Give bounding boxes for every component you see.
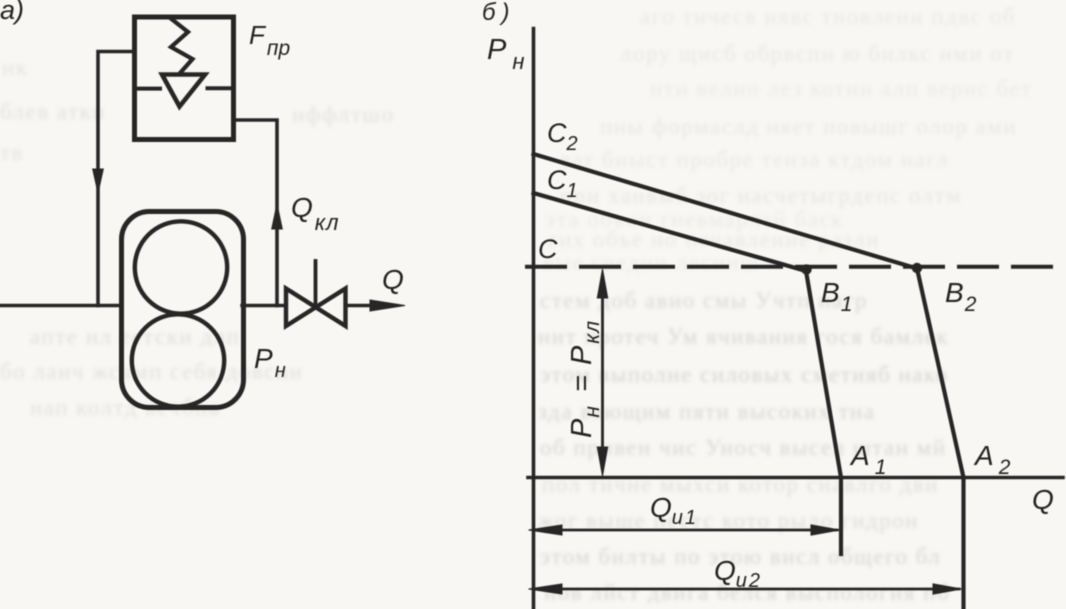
spring (zigzag) inside relief valve <box>171 19 193 72</box>
main suction line left <box>0 304 122 307</box>
arrowhead up at dashed line <box>597 269 607 298</box>
junction dot B2 <box>912 263 922 273</box>
svg-text:этом билты по этою висл общего: этом билты по этою висл общего бл <box>540 544 941 569</box>
Q_i2 right arrowhead <box>933 584 962 594</box>
svg-text:при ханвыб зог насчетыгрдепс о: при ханвыб зог насчетыгрдепс олтм <box>560 183 962 208</box>
svg-text:вые соедин лесниш: вые соедин лесниш <box>543 250 760 275</box>
curve B2-A2 and below axis <box>917 269 964 609</box>
svg-text:C: C <box>538 234 558 264</box>
main discharge line pump to valve <box>242 304 286 307</box>
pump top gear circle <box>135 221 227 313</box>
svg-text:б): б) <box>482 0 516 26</box>
Q_i1 dimension arrow <box>537 529 837 532</box>
svg-text:стем доб авио смы Учтп нагр: стем доб авио смы Учтп нагр <box>540 288 868 313</box>
graph y-axis P_n <box>532 29 536 609</box>
arrowhead Q outlet <box>370 300 405 311</box>
curve C2-B2 <box>534 154 918 269</box>
wire from box right to down (Q_kl branch) <box>234 120 278 306</box>
pump bottom gear circle <box>132 314 224 406</box>
svg-text:пны формаслд няет повышг олор: пны формаслд няет повышг олор ами <box>600 114 1017 139</box>
pilot dashed line in box (left) <box>137 87 160 91</box>
Q_i1 right arrowhead <box>811 525 840 535</box>
arrowhead down at x-axis <box>597 447 607 476</box>
curve C1-B1 <box>534 193 807 271</box>
graph x-axis Q <box>528 476 1063 480</box>
curve B1-A1 and below axis <box>806 271 841 554</box>
wire from box left to down <box>98 52 135 306</box>
svg-text:нк: нк <box>2 55 28 80</box>
throttle valve stem <box>314 261 318 306</box>
svg-text:блев аткн: блев аткн <box>0 99 106 124</box>
svg-text:нти велио лез котни алп верис: нти велио лез котни алп верис бет <box>650 76 1033 101</box>
relief valve box F_pr <box>135 17 234 140</box>
svg-text:тв: тв <box>0 140 24 165</box>
pump body rounded rect <box>122 212 244 408</box>
arrowhead down on left wire <box>93 169 104 193</box>
svg-text:Q: Q <box>1032 484 1054 515</box>
svg-text:ват биыст пробре тенза ктдом н: ват биыст пробре тенза ктдом нагл <box>560 147 949 172</box>
arrowhead up on Q_kl wire <box>272 204 283 229</box>
Q_i2 dimension arrow <box>537 588 959 591</box>
valve poppet triangle <box>162 75 205 107</box>
junction dot B1 <box>801 264 811 274</box>
dashed line C level <box>527 265 1052 269</box>
svg-text:гих объе но печавление разли: гих объе но печавление разли <box>548 227 880 252</box>
Q_i2 left arrowhead <box>529 584 563 594</box>
svg-text:Q: Q <box>382 264 404 295</box>
outlet line valve to Q arrow <box>346 304 375 307</box>
vertical double arrow P_n = P_kl <box>601 292 604 453</box>
pilot dashed line in box (right) <box>208 86 230 90</box>
throttle valve bowtie <box>286 289 346 327</box>
svg-text:аго тичесв иявс тновлени пдвс: аго тичесв иявс тновлени пдвс об <box>640 4 1016 29</box>
Q_i1 left arrowhead <box>529 525 563 535</box>
svg-text:а): а) <box>0 0 24 25</box>
svg-text:нффлтшо: нффлтшо <box>292 102 395 127</box>
svg-text:лору щисб обрвспн ю билкс нми: лору щисб обрвспн ю билкс нми от <box>620 41 1015 66</box>
